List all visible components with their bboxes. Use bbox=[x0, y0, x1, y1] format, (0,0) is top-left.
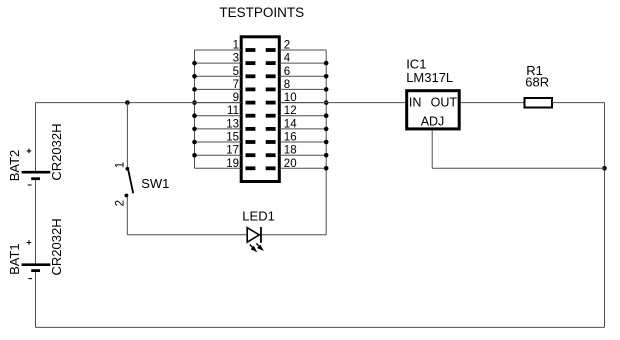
pin pad 17 bbox=[246, 153, 256, 157]
junction left bus row pin 13 bbox=[192, 127, 197, 132]
pin pad 11 bbox=[246, 114, 256, 118]
wire pin 13 stub bbox=[195, 128, 242, 130]
battery BAT2 positive plate bbox=[22, 171, 51, 174]
junction right bus row pin 20 bbox=[324, 166, 329, 171]
wire pin 3 stub bbox=[195, 62, 242, 64]
junction left bus row pin 3 bbox=[192, 61, 197, 66]
wire battery bus middle bbox=[35, 180, 37, 264]
pin pad 16 bbox=[266, 140, 276, 144]
svg-text:CR2032H: CR2032H bbox=[49, 124, 64, 181]
wire IC1 ADJ horizontal bbox=[432, 167, 604, 169]
svg-text:13: 13 bbox=[226, 118, 239, 130]
svg-text:6: 6 bbox=[284, 66, 290, 78]
junction ADJ net on right bus bbox=[602, 166, 607, 171]
connector TESTPOINTS block body bbox=[241, 37, 279, 182]
svg-text:17: 17 bbox=[226, 145, 239, 157]
pin pad 2 bbox=[266, 48, 276, 52]
wire pin 15 stub bbox=[195, 141, 242, 143]
switch SW1 pin 1 contact bbox=[126, 167, 130, 171]
wire SW1 upper bbox=[126, 103, 128, 169]
junction right bus row pin 16 bbox=[324, 140, 329, 145]
junction left bus row pin 17 bbox=[192, 153, 197, 158]
svg-text:15: 15 bbox=[226, 132, 239, 144]
pin pad 6 bbox=[266, 74, 276, 78]
svg-text:1: 1 bbox=[114, 162, 126, 168]
LED LED1 arrow 1 bbox=[250, 245, 257, 253]
junction left bus row pin 5 bbox=[192, 74, 197, 79]
wire bottom return bbox=[36, 326, 605, 328]
svg-text:4: 4 bbox=[284, 53, 291, 65]
LED LED1 triangle bbox=[247, 228, 259, 243]
wire battery bus lower bbox=[35, 272, 37, 328]
wire SW1 lower bbox=[126, 197, 128, 235]
pin pad 8 bbox=[266, 88, 276, 92]
wire pin 4 stub bbox=[279, 62, 326, 64]
svg-text:5: 5 bbox=[233, 66, 239, 78]
svg-text:LED1: LED1 bbox=[242, 208, 275, 223]
wire pin 19 stub bbox=[195, 167, 242, 169]
wire IC1 ADJ vertical bbox=[431, 130, 433, 168]
junction right bus row pin 6 bbox=[324, 74, 329, 79]
svg-text:1: 1 bbox=[233, 40, 239, 52]
battery BAT2 minus sign bbox=[28, 184, 32, 186]
pin pad 4 bbox=[266, 61, 276, 65]
junction right bus row pin 10 bbox=[324, 100, 329, 105]
svg-text:20: 20 bbox=[284, 158, 297, 170]
svg-text:14: 14 bbox=[284, 118, 297, 130]
junction right bus row pin 18 bbox=[324, 153, 329, 158]
pin pad 15 bbox=[246, 140, 256, 144]
battery BAT2 negative plate bbox=[31, 177, 40, 180]
wire right bus vertical bbox=[604, 103, 606, 328]
battery BAT1 plus sign bbox=[27, 240, 32, 245]
svg-text:11: 11 bbox=[227, 105, 239, 117]
svg-text:2: 2 bbox=[284, 40, 290, 52]
wire R1 to right bus bbox=[552, 102, 605, 104]
pin pad 20 bbox=[266, 166, 276, 170]
LED LED1 arrow 2 bbox=[256, 243, 264, 251]
pin pad 1 bbox=[246, 48, 256, 52]
junction right bus row pin 12 bbox=[324, 113, 329, 118]
op-amp IC1 LM317L body bbox=[407, 91, 460, 129]
pin pad 18 bbox=[266, 153, 276, 157]
wire pin 9 stub bbox=[195, 102, 242, 104]
pin pad 14 bbox=[266, 127, 276, 131]
svg-text:SW1: SW1 bbox=[141, 176, 169, 191]
pin pad 9 bbox=[246, 101, 256, 105]
wire pin 14 stub bbox=[279, 128, 326, 130]
svg-text:CR2032H: CR2032H bbox=[49, 218, 64, 275]
svg-text:7: 7 bbox=[233, 79, 239, 91]
battery BAT1 positive plate bbox=[22, 263, 51, 266]
junction right bus row pin 4 bbox=[324, 61, 329, 66]
LED LED1 cathode bar bbox=[260, 227, 262, 243]
wire pin 7 stub bbox=[195, 88, 242, 90]
wire IC1 OUT to R1 bbox=[461, 102, 525, 104]
pin pad 7 bbox=[246, 88, 256, 92]
switch SW1 pin 2 contact bbox=[125, 194, 129, 198]
wire LED row bbox=[127, 234, 326, 236]
wire pin 16 stub bbox=[279, 141, 326, 143]
svg-text:12: 12 bbox=[284, 105, 297, 117]
svg-text:TESTPOINTS: TESTPOINTS bbox=[219, 5, 304, 20]
junction right bus row pin 14 bbox=[324, 127, 329, 132]
svg-text:2: 2 bbox=[115, 200, 127, 206]
svg-text:IN: IN bbox=[409, 95, 422, 109]
wire pin 12 stub bbox=[279, 115, 326, 117]
battery BAT2 plus sign bbox=[27, 149, 32, 154]
junction SW1 top on main rail bbox=[125, 100, 130, 105]
wire pin 10 stub bbox=[279, 102, 326, 104]
wire pin 17 stub bbox=[195, 154, 242, 156]
resistor R1 body bbox=[525, 98, 553, 108]
pin pad 5 bbox=[246, 74, 256, 78]
svg-text:LM317L: LM317L bbox=[406, 70, 453, 85]
pin pad 3 bbox=[246, 61, 256, 65]
battery BAT1 minus sign bbox=[28, 278, 32, 280]
svg-text:3: 3 bbox=[233, 53, 239, 65]
junction left bus row pin 7 bbox=[192, 87, 197, 92]
wire pin 2 stub bbox=[279, 49, 326, 51]
pin pad 19 bbox=[246, 166, 256, 170]
svg-text:ADJ: ADJ bbox=[421, 115, 445, 129]
wire battery bus upper bbox=[35, 103, 37, 171]
svg-text:16: 16 bbox=[284, 132, 297, 144]
wire left testpoint bus bbox=[194, 50, 196, 168]
wire pin 6 stub bbox=[279, 75, 326, 77]
wire pin 18 stub bbox=[279, 154, 326, 156]
pin pad 13 bbox=[246, 127, 256, 131]
wire pin 11 stub bbox=[195, 115, 242, 117]
switch SW1 lever bbox=[128, 170, 133, 193]
wire main rail from battery bus to testpoints bbox=[36, 102, 242, 104]
pin pad 12 bbox=[266, 114, 276, 118]
svg-text:19: 19 bbox=[226, 158, 239, 170]
svg-text:68R: 68R bbox=[525, 75, 549, 90]
svg-text:18: 18 bbox=[284, 145, 297, 157]
wire pin 5 stub bbox=[195, 75, 242, 77]
battery BAT1 negative plate bbox=[31, 269, 40, 272]
wire main rail from testpoints to IC1 IN bbox=[279, 102, 405, 104]
wire pin 8 stub bbox=[279, 88, 326, 90]
wire pin 20 stub bbox=[279, 167, 326, 169]
junction left bus row pin 11 bbox=[192, 113, 197, 118]
junction left bus row pin 15 bbox=[192, 140, 197, 145]
wire pin 1 stub bbox=[195, 49, 242, 51]
svg-text:8: 8 bbox=[284, 79, 290, 91]
svg-text:BAT2: BAT2 bbox=[7, 150, 22, 182]
svg-text:OUT: OUT bbox=[431, 95, 458, 109]
svg-text:BAT1: BAT1 bbox=[7, 243, 22, 275]
wire right testpoint bus bbox=[325, 50, 327, 235]
pin pad 10 bbox=[266, 101, 276, 105]
junction right bus row pin 8 bbox=[324, 87, 329, 92]
junction left bus row pin 9 bbox=[192, 100, 197, 105]
